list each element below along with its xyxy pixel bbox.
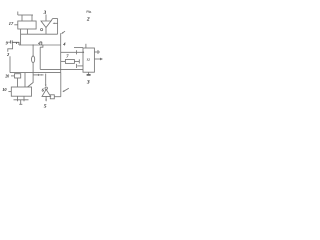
label 5 under A2	[44, 103, 47, 109]
wire U2 ground stub	[88, 72, 90, 74]
label 4	[62, 41, 66, 46]
svg-text:6: 6	[42, 87, 45, 92]
wire Q2 source stub	[40, 45, 43, 47]
wire second lower segment	[33, 74, 44, 76]
wire stub down x27.4	[26, 29, 28, 34]
svg-text:10: 10	[2, 87, 7, 92]
wire Q1 source lead	[8, 44, 13, 52]
capacitor C2 (small box)	[15, 74, 21, 78]
transistor Q1	[10, 40, 19, 45]
wire box3 bottom stub A	[17, 96, 19, 100]
svg-text:5: 5	[44, 103, 47, 109]
wire Q2 drop	[39, 47, 41, 69]
wire bus1	[21, 33, 58, 35]
arrow callout top	[62, 31, 65, 33]
node bar x76.6	[76, 64, 78, 68]
ground G1	[14, 100, 29, 105]
node dot at box2	[82, 51, 84, 53]
wire box2 top stub	[85, 44, 87, 48]
resistor R1	[65, 60, 74, 64]
op-amp A1 (triangle down)	[41, 21, 51, 28]
label 3 under U2	[86, 79, 90, 85]
wire base extension	[54, 96, 61, 98]
node tick x38.4	[37, 74, 39, 76]
wire top stub B	[31, 15, 33, 21]
node bar x76.5	[76, 50, 78, 54]
capacitor C1 (oval)	[31, 56, 34, 63]
svg-text:20: 20	[4, 74, 9, 78]
arrow feedback arm head	[53, 23, 55, 25]
label 7	[66, 54, 69, 59]
wire feedback top	[53, 18, 58, 20]
wire stub bus to box3	[24, 73, 26, 87]
amplifier A2 (triangle up)	[42, 89, 51, 96]
label 17	[9, 21, 14, 26]
node dot bus2-cap	[33, 44, 34, 45]
wire mid to box2	[61, 51, 83, 53]
wire box2 right lead upper	[94, 51, 100, 53]
wire stub down x20.6	[20, 29, 22, 45]
wire stub C2 to box3	[17, 78, 19, 87]
wire amp output	[45, 28, 47, 35]
svg-text:4: 4	[62, 41, 66, 46]
label 3	[43, 11, 47, 16]
wire label9 dash	[8, 41, 10, 43]
wire input to amp	[45, 15, 47, 22]
label 6	[42, 87, 45, 92]
wire top bar	[18, 14, 33, 16]
svg-text:12: 12	[86, 58, 90, 62]
wire box3 bottom stub B	[23, 96, 25, 100]
wire feedback diag	[51, 19, 53, 22]
wire box3 left lead	[8, 91, 11, 93]
arrow output	[100, 58, 103, 61]
wire cap drop bottom	[32, 63, 34, 73]
block U2 (right box)	[83, 48, 94, 72]
wire label20 dash	[11, 75, 14, 77]
wire A2 stem	[45, 96, 47, 100]
wire resistor lead right	[74, 60, 79, 62]
node dot Q2	[38, 43, 39, 44]
wire rail bottom	[60, 73, 62, 97]
arrow A2 stem head	[45, 100, 47, 102]
ground bar U2 (thick)	[87, 74, 91, 76]
transistor Q2	[40, 42, 42, 45]
wire below bus x33	[28, 73, 34, 87]
svg-text:17: 17	[9, 21, 14, 26]
wire rail right	[60, 33, 62, 72]
wire resistor lead left	[61, 60, 66, 62]
label 9	[6, 41, 9, 46]
node dot x41.6	[41, 74, 42, 75]
wire upper lead to box2	[74, 47, 83, 49]
wire cap drop top	[32, 45, 34, 56]
label 20	[4, 74, 9, 78]
label Fig	[86, 9, 92, 13]
label 12 inside U2	[86, 58, 90, 62]
label 10	[2, 87, 7, 92]
label 2	[6, 52, 10, 57]
block U1 (top-left box)	[18, 21, 36, 29]
wire bus2	[19, 44, 61, 46]
wire top stub A	[21, 15, 23, 21]
block U3 (bottom-left box)	[11, 87, 31, 96]
svg-text:Fig.: Fig.	[86, 9, 92, 13]
arrow callout bottom	[63, 88, 69, 92]
wire left drop	[9, 56, 11, 72]
arrow leader head	[45, 85, 47, 87]
node T bar	[78, 59, 80, 63]
contact box at base	[50, 95, 54, 99]
wire box2 lower-left lead	[77, 65, 83, 67]
wire feedback arm	[54, 22, 57, 24]
svg-text:2: 2	[6, 52, 10, 57]
wire lower bus	[10, 72, 61, 74]
node bubble2	[45, 87, 47, 89]
node bar x98	[97, 50, 99, 54]
wire lead left of U1	[14, 24, 17, 26]
wire output lead	[94, 58, 100, 60]
svg-text:2: 2	[86, 17, 90, 23]
wire feedback right	[57, 19, 59, 35]
svg-text:9: 9	[6, 41, 9, 46]
svg-text:7: 7	[66, 54, 69, 59]
wire top tick	[17, 12, 19, 16]
node bubble	[41, 29, 43, 31]
wire lower link to box2	[40, 68, 83, 70]
svg-text:3: 3	[86, 79, 90, 85]
wire leader down	[45, 74, 47, 85]
label 2 fig	[86, 17, 90, 23]
